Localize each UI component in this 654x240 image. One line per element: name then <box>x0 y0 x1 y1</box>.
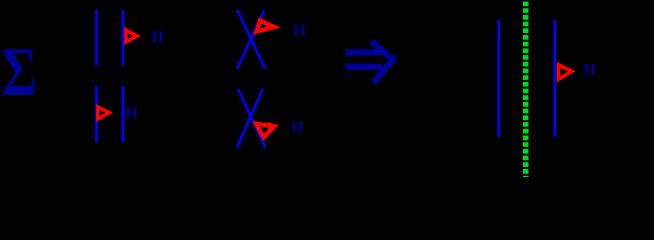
arrow marker T1 on right line (upper) <box>126 30 137 42</box>
arrow marker T3 nose fill <box>268 23 279 31</box>
summation sigma <box>1 33 37 111</box>
arrow marker T4 nose fill <box>268 122 278 129</box>
svg-text:H: H <box>152 29 165 46</box>
wire: left ket line 2 lower segment <box>122 86 125 142</box>
implies arrow chevron <box>371 41 393 83</box>
wire: upper X segment NW-SE <box>237 10 265 69</box>
svg-text:Σ: Σ <box>1 33 37 111</box>
arrow marker T3 on upper X <box>257 21 274 32</box>
wire: left ket line 1 lower segment <box>95 86 98 142</box>
svg-text:H: H <box>294 23 307 40</box>
wire: lower X segment NW-SE <box>238 89 265 148</box>
wire: upper X segment NE-SW <box>237 10 264 69</box>
wire: left ket line 1 upper segment <box>95 10 98 66</box>
arrow marker T2 on left line (lower) <box>98 107 109 119</box>
wire: lower X segment NE-SW <box>237 89 263 148</box>
wire: right ket line 1 <box>497 20 500 137</box>
green dashed cut line <box>523 2 529 178</box>
wire: left ket line 2 upper segment <box>122 10 125 66</box>
wire: right ket line 2 <box>553 20 556 137</box>
implies arrow lower bar <box>346 64 383 70</box>
svg-text:H: H <box>125 105 138 122</box>
svg-text:H: H <box>292 120 305 137</box>
arrow marker T5 on right line <box>559 65 572 79</box>
svg-text:H: H <box>584 62 597 79</box>
implies arrow upper bar <box>346 49 383 55</box>
arrow marker T4 on lower X <box>256 124 274 138</box>
